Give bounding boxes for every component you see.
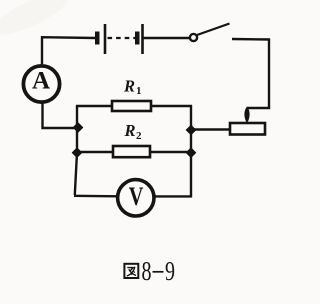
wire voltmeter loop right <box>154 195 192 197</box>
resistor R2 body <box>113 146 150 157</box>
rheostat R3 wiper arrow <box>244 107 249 124</box>
junction node dot left upper <box>73 123 82 132</box>
rheostat R3 body <box>230 123 265 135</box>
wire top-left from ammeter to battery <box>42 37 96 64</box>
wire ammeter bottom to left node <box>43 102 78 128</box>
wire switch to top-right corner <box>232 38 270 41</box>
voltmeter U-V circle <box>118 180 154 216</box>
svg-text:V: V <box>129 183 144 212</box>
svg-text:A: A <box>32 67 50 94</box>
battery GB cell 1 long thin plate <box>104 24 107 54</box>
battery GB cell 1 short thick plate <box>95 32 100 45</box>
svg-text:R: R <box>124 121 136 140</box>
wire R2 left lead <box>76 151 113 153</box>
wire right vertical down to rheostat <box>247 39 269 109</box>
junction node dot right lower <box>186 148 195 157</box>
battery GB cell 2 long thin plate <box>141 24 144 54</box>
svg-text:1: 1 <box>136 85 142 97</box>
caption 图 glyph <box>124 264 138 278</box>
svg-text:9: 9 <box>165 257 175 287</box>
wire right bus vertical <box>190 105 192 198</box>
ammeter U-A circle <box>23 66 59 102</box>
wire voltmeter loop left <box>74 195 118 198</box>
svg-text:8: 8 <box>142 257 152 287</box>
svg-text:2: 2 <box>136 130 142 142</box>
wire R1 right lead <box>151 105 192 107</box>
switch S1 lever <box>197 24 230 36</box>
wire right node to rheostat R3 <box>191 128 230 130</box>
caption dash <box>153 271 164 273</box>
battery GB cell 2 short thick plate <box>135 32 140 45</box>
svg-text:R: R <box>123 77 135 96</box>
switch S1 pivot circle <box>190 34 197 41</box>
junction node dot right upper <box>186 125 195 134</box>
junction node dot left lower <box>72 148 81 157</box>
wire battery to switch <box>144 37 190 39</box>
battery GB dashed link <box>108 37 136 39</box>
wire R1 left lead <box>76 105 112 107</box>
wire left bus vertical <box>75 105 77 195</box>
wire R2 right lead <box>150 151 192 153</box>
resistor R1 body <box>112 101 151 111</box>
